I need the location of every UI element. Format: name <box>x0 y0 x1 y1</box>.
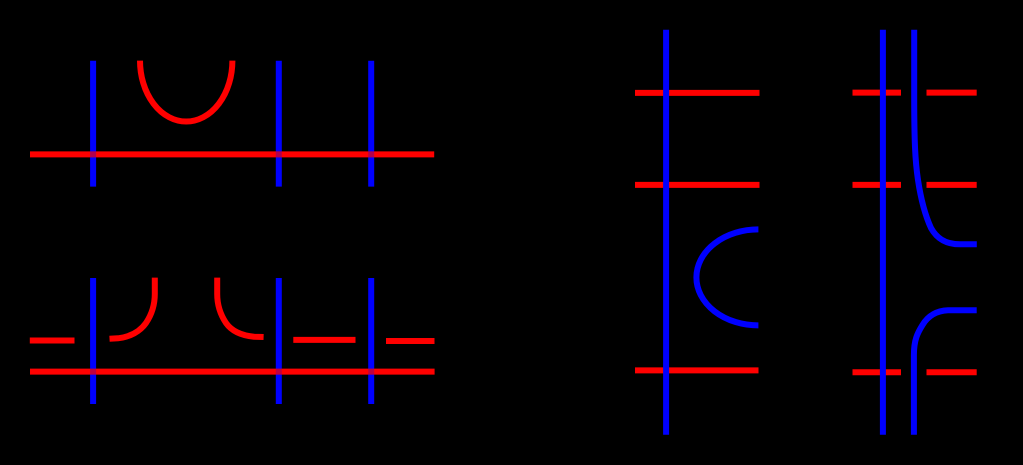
wire: blue vertical strand V2a <box>276 61 282 187</box>
wire: blue vertical strand Vc <box>663 30 669 435</box>
wire: red dash segment B (between V2b and V3b) <box>293 337 355 343</box>
wire: red dashed row 2 left dash <box>853 182 902 188</box>
node: crossing blend V1b x red line <box>90 369 96 375</box>
wire: red horizontal line (top-left) <box>30 151 434 157</box>
wire: blue vertical strand V3a <box>368 61 374 187</box>
wire: blue vertical strand V2b <box>276 278 282 404</box>
wire: blue vertical strand V1b <box>90 278 96 404</box>
wire: red dashed row 1 right dash <box>927 90 977 96</box>
wire: red dash segment C (right of V3b) <box>386 338 435 344</box>
node: crossing blend V3a x red line <box>368 151 374 157</box>
wire: blue vertical strand V3b <box>368 278 374 404</box>
node: crossing blend V1a x red line <box>90 151 96 157</box>
node: crossing blend V3b x red line <box>368 369 374 375</box>
wire: blue vertical strand Vd (straight) <box>880 30 886 435</box>
wire: red dashed row 3 right dash <box>927 369 977 375</box>
wire: red U-shaped arc (top-left) <box>140 61 232 122</box>
node: crossing blend V2b x red line <box>276 369 282 375</box>
wire: red right elbow curve (vertical to horizontal) <box>217 278 263 337</box>
wire: blue curve B (vertical top, exits right) <box>914 30 977 245</box>
wire: red dash segment A (far left) <box>30 338 75 344</box>
wire: blue vertical strand V1a <box>90 61 96 187</box>
node: crossing blend V2a x red line <box>276 151 282 157</box>
wire: red horizontal segment R2c <box>635 182 760 188</box>
wire: red horizontal line (bottom-left) <box>30 369 435 375</box>
wire: blue curve C (enters right, vertical bottom) <box>914 310 977 434</box>
wire: red dashed row 2 right dash <box>927 182 977 188</box>
wire: red dashed row 1 left dash <box>853 90 902 96</box>
wire: red left elbow curve (horizontal to vertical) <box>110 278 155 339</box>
wire: red horizontal segment R1c <box>635 90 760 96</box>
wire: red horizontal segment R3c <box>635 367 759 373</box>
wire: red dashed row 3 left dash <box>853 369 902 375</box>
wire: blue C-shaped arc (opens right) <box>696 229 758 325</box>
